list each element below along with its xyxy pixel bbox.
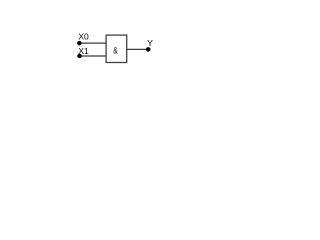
wire output Y [127, 48, 149, 50]
svg-text:Y: Y [147, 38, 153, 48]
svg-text:X0: X0 [78, 32, 89, 42]
svg-text:X1: X1 [78, 46, 89, 56]
wire input X0 [79, 42, 106, 44]
node X1 terminal dot [77, 54, 82, 59]
node X0 terminal dot [77, 41, 82, 46]
AND gate circuit schematic [0, 0, 213, 127]
wire input X1 [80, 55, 107, 57]
node Y terminal dot [146, 47, 151, 52]
svg-text:&: & [113, 45, 118, 55]
and-gate U1 box [106, 35, 127, 62]
